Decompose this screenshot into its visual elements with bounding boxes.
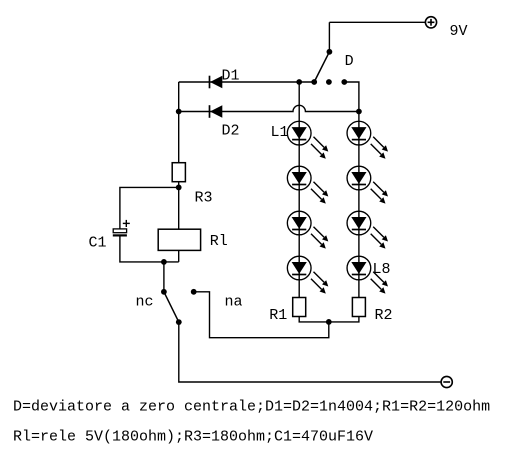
wire from switch right contact to right LED column [344, 82, 359, 112]
relay contact lever [164, 292, 179, 322]
wire top rail from switch common to + terminal [329, 21, 425, 23]
wire switch common vertical [328, 22, 330, 52]
wire to nc contact [163, 262, 165, 292]
svg-text:Rl: Rl [210, 233, 228, 250]
LED L4 [287, 256, 328, 294]
battery negative terminal [441, 376, 452, 387]
resistor R3 [172, 163, 185, 182]
svg-text:D1: D1 [222, 68, 240, 85]
svg-text:R1: R1 [269, 307, 287, 324]
LED L2 [287, 166, 328, 204]
diode D2 [210, 105, 223, 118]
svg-text:D2: D2 [222, 123, 240, 140]
wire relay coil bottom [178, 250, 180, 262]
relay R1 coil box [158, 229, 200, 250]
battery positive terminal 9V [425, 17, 436, 28]
wire common to battery negative [179, 322, 441, 382]
wire D2 row with hop over left LED column [179, 105, 359, 111]
wire na contact to LED return [194, 292, 329, 338]
svg-text:9V: 9V [450, 23, 468, 40]
capacitor C1 electrolytic [113, 220, 130, 236]
node D2 row right LED column junction [356, 109, 362, 115]
node na contact [191, 289, 197, 295]
wire R3 bottom to relay coil top [178, 182, 180, 230]
LED L7 [347, 211, 388, 249]
svg-text:na: na [225, 293, 243, 310]
LED L8 [347, 256, 388, 294]
svg-text:D: D [345, 53, 354, 70]
LED L5 [347, 121, 388, 159]
LED L3 [287, 211, 328, 249]
switch D lever [314, 52, 329, 82]
svg-text:C1: C1 [89, 234, 107, 251]
node contact common [176, 319, 182, 325]
wire C1 bottom to relay bottom rail [120, 235, 179, 262]
node switch left contact [311, 79, 317, 85]
LED L1 [287, 121, 328, 159]
node nc contact [161, 289, 167, 295]
diode D1 [210, 76, 223, 89]
wire right LED column [358, 112, 360, 298]
svg-text:L1: L1 [271, 124, 289, 141]
node switch center contact [326, 79, 332, 85]
node D1 row to left LED column junction [296, 79, 302, 85]
svg-text:Rl=rele 5V(180ohm);R3=180ohm;C: Rl=rele 5V(180ohm);R3=180ohm;C1=470uF16V [13, 429, 373, 446]
svg-text:R3: R3 [195, 189, 213, 206]
node R3 bottom / C1 branch junction [176, 185, 182, 191]
wire R1 R2 bottom join [299, 317, 359, 322]
svg-text:D=deviatore a zero centrale;D1: D=deviatore a zero centrale;D1=D2=1n4004… [13, 399, 490, 416]
svg-text:L8: L8 [373, 261, 391, 278]
resistor R1 [293, 298, 306, 317]
node D2 row left rail junction [176, 109, 182, 115]
svg-text:nc: nc [136, 293, 154, 310]
wire left LED column [298, 82, 300, 298]
wire left rail vertical to R3 [178, 82, 180, 163]
node switch common pivot [327, 49, 333, 55]
node R1 R2 junction [326, 319, 332, 325]
LED L6 [347, 166, 388, 204]
wire branch to C1 [120, 187, 179, 229]
node switch right contact [341, 79, 347, 85]
wire D1 row [179, 81, 315, 83]
svg-text:R2: R2 [375, 307, 393, 324]
resistor R2 [352, 298, 365, 317]
node relay bottom / C1 / nc junction [161, 259, 167, 265]
